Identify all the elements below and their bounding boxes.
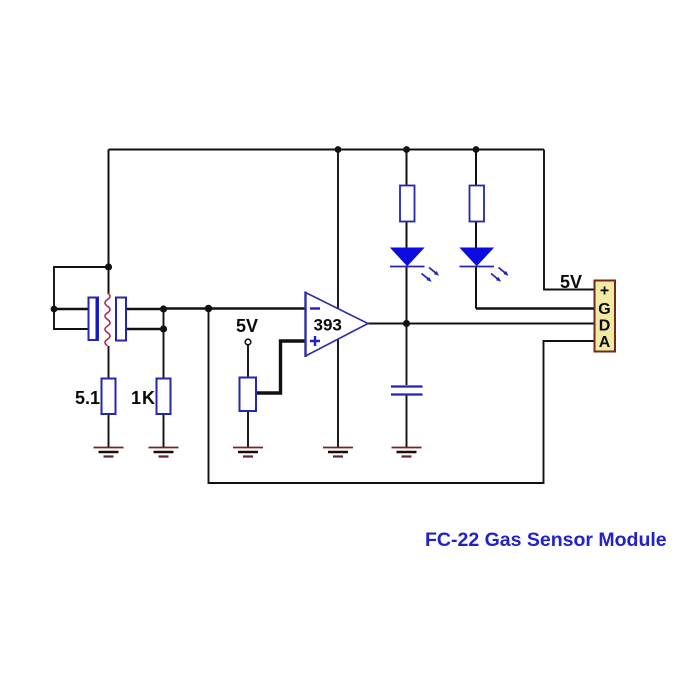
node sensor output junction upper <box>160 305 167 312</box>
svg-text:5.1: 5.1 <box>75 388 100 408</box>
node electrode A junction <box>51 306 58 313</box>
wire output node down to capacitor <box>406 324 408 386</box>
wire rail right end down to connector + <box>544 150 594 290</box>
wire analog out: node down, across bottom, up to connector A <box>209 309 595 483</box>
node sensor output junction lower <box>160 325 167 332</box>
wire thick non-inverting input to pot wiper <box>256 341 305 393</box>
wire sensor output to op-amp inverting input <box>164 307 306 310</box>
wire pot to ground <box>247 411 249 447</box>
resistor 1K <box>157 379 171 415</box>
svg-text:A: A <box>599 334 611 351</box>
node sensor top junction <box>105 263 112 270</box>
node rail junction LED2 <box>473 146 480 153</box>
terminal 5V open circle <box>245 339 251 345</box>
wire 5V terminal to pot <box>247 345 249 378</box>
wire LED2 branch from rail to resistor <box>475 150 477 188</box>
wire resistor 1K to ground <box>163 414 165 447</box>
svg-text:G: G <box>598 301 610 318</box>
ground under resistor 1K <box>149 448 179 457</box>
wire sensor output down to resistor 1K <box>163 309 165 378</box>
wire left loop to sensor electrode A <box>54 267 109 329</box>
wire heater top <box>108 267 110 294</box>
resistor LED1 series <box>400 186 415 222</box>
ground under resistor 5.1 <box>94 448 124 457</box>
resistor 5.1 <box>102 379 116 415</box>
wire LED2 cathode down to ground row <box>475 266 477 309</box>
label op-amp minus input <box>310 307 320 309</box>
label op-amp plus input <box>310 336 320 346</box>
svg-text:5V: 5V <box>560 272 582 292</box>
wire LED1 cathode down to output node <box>406 266 408 324</box>
resistor LED2 series <box>470 186 485 222</box>
sensor FC-22 electrode plate right <box>116 298 126 341</box>
sensor FC-22 electrode plate left <box>89 298 99 341</box>
ground under potentiometer <box>233 448 263 457</box>
node output junction <box>403 320 410 327</box>
svg-text:5V: 5V <box>236 316 258 336</box>
svg-text:+: + <box>600 283 609 300</box>
capacitor C1 <box>391 387 423 395</box>
wire LED2 resistor to anode <box>475 220 477 249</box>
wire heater bottom to resistor 5.1 <box>108 346 110 378</box>
connector J1 header <box>595 281 616 352</box>
node rail junction op-amp supply <box>335 146 342 153</box>
wire top 5V rail <box>109 149 545 151</box>
svg-text:1K: 1K <box>131 388 156 408</box>
sensor FC-22 heater coil <box>105 293 110 346</box>
ground under op-amp supply <box>323 448 353 457</box>
ground under capacitor <box>392 448 422 457</box>
wire electrode A upper <box>54 308 88 311</box>
wire left drop from rail to sensor top node <box>108 150 110 268</box>
wire op-amp power rail to ground <box>337 150 339 448</box>
svg-text:D: D <box>599 318 611 335</box>
LED D2 <box>460 248 509 282</box>
wire resistor 5.1 to ground <box>108 414 110 447</box>
LED D1 <box>390 248 439 282</box>
wire op-amp output to connector D <box>368 323 594 325</box>
svg-text:393: 393 <box>314 316 342 335</box>
wire LED1 branch from rail to resistor <box>406 150 408 188</box>
wire electrode B upper to node <box>127 308 165 311</box>
wire ground row to connector G <box>476 307 594 310</box>
svg-text:FC-22 Gas Sensor Module: FC-22 Gas Sensor Module <box>425 529 667 551</box>
op-amp U1 LM393 <box>306 292 369 358</box>
wire electrode B lower to node <box>127 328 165 331</box>
wire LED1 resistor to anode <box>406 220 408 249</box>
node rail junction LED1 <box>403 146 410 153</box>
potentiometer threshold <box>240 378 257 412</box>
wire capacitor to ground <box>406 395 408 447</box>
node analog-out junction <box>205 305 213 313</box>
